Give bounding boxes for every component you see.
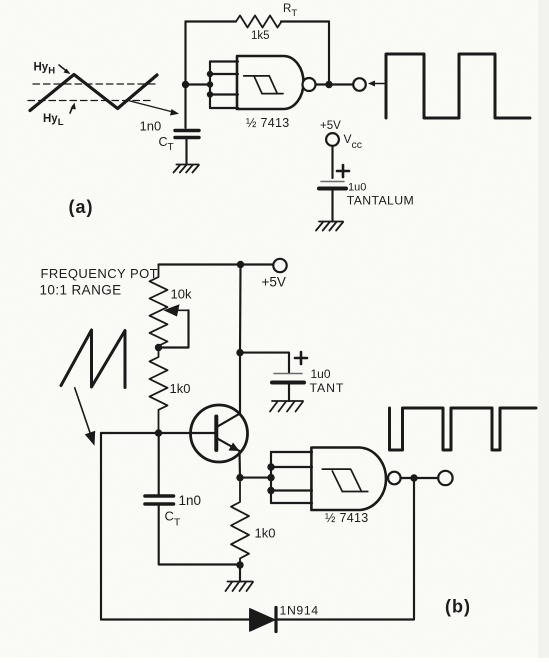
wire tant (b) to ground [288,383,290,402]
arrow HyH to peak [59,65,71,74]
square waveform (a) [386,54,530,118]
node input bus (b) dot 1 [267,463,274,470]
output bubble (a) [303,78,316,91]
svg-text:1u0: 1u0 [348,182,366,194]
arrow HyL to lower threshold [70,103,76,114]
capacitor tantalum (b) bottom plate [272,381,304,385]
ground tantalum (a) [316,222,343,231]
upper hysteresis dashed line [33,83,158,85]
svg-text:1n0: 1n0 [140,119,162,134]
capacitor CT (b) top plate [145,494,174,498]
capacitor tantalum (a) top plate [321,181,344,183]
node input bus dot 1 [207,71,213,77]
node junction left (a) [182,81,189,88]
resistor 1k0 (right) [231,478,249,565]
wire CT (b) bottom [159,504,240,565]
ground CT (a) [174,165,199,173]
wire collector up [239,353,241,414]
wire feedback top right segment [281,20,329,22]
resistor 1k0 (left) [150,348,168,434]
node pot bottom [155,344,162,351]
node input bus dot 3 [207,91,213,97]
node resistor bottom [236,561,243,568]
svg-text:TANTALUM: TANTALUM [347,193,414,207]
Vcc terminal circle [326,133,339,146]
wire emitter down [238,451,241,478]
wire emitter to input bus (b) [240,477,271,479]
wire resistor bottom to ground [239,565,241,582]
wire CT (b) from base node [158,433,160,496]
nand gate U2 (b) body [311,448,386,511]
transistor collector line [217,413,240,426]
capacitor CT (a) bottom plate [175,136,199,139]
output bubble (b) [388,472,401,485]
node input bus (b) dot 3 [267,487,274,494]
wire node to input bus [186,83,211,85]
potentiometer 10k resistor body [150,265,168,348]
arrow sawtooth to feedback corner [75,388,96,446]
svg-text:1u0: 1u0 [311,367,331,381]
capacitor CT (b) bottom plate [145,502,174,506]
node base junction [155,429,162,436]
transistor emitter line with arrow [217,438,240,451]
input stub 3 (b) [271,489,312,491]
output terminal circle (a) [353,78,366,91]
output terminal circle (b) [438,471,452,485]
svg-text:1N914: 1N914 [280,604,319,618]
input stub 1 (a) [210,60,238,62]
wire +5V rail down [239,265,242,353]
plus sign tantalum (b) [295,352,307,364]
svg-text:(b): (b) [445,597,471,617]
svg-text:1k0: 1k0 [255,526,276,541]
capacitor CT (a) top plate [175,129,199,132]
input bus vertical (b) [270,452,272,503]
node top rail (b) [237,261,244,268]
capacitor tantalum (a) bottom plate [319,187,346,191]
wire gate output (b) [401,477,438,479]
svg-text:(a): (a) [69,197,94,217]
wire CT to ground [185,138,187,165]
wire to tant cap (b) [240,353,289,373]
input stub 4 (b) [271,502,312,504]
hysteresis symbol (b) [322,469,368,491]
diode 1N914 [250,608,276,632]
svg-text:10k: 10k [171,287,192,302]
wire wiper loop [159,310,189,347]
svg-text:+5V: +5V [320,120,341,132]
node output (b) [410,474,417,481]
wire feedback top left segment [186,20,237,22]
svg-text:1k5: 1k5 [251,30,270,42]
arrow from square wave to output (a) [368,81,384,87]
svg-text:1k0: 1k0 [170,381,191,396]
wire gate output (a) [316,83,353,85]
transistor base bar [214,417,218,451]
triangle waveform (a) [30,75,157,111]
node emitter [236,474,243,481]
wire base rail [101,432,216,434]
input stub 3 (a) [210,93,238,95]
svg-text:TANT: TANT [310,381,345,395]
nand gate U1 (a) body [237,56,304,109]
ground tantalum (b) [270,401,303,412]
svg-text:FREQUENCY POT: FREQUENCY POT [41,266,159,281]
node output (a) [325,81,332,88]
wire output feedback down (b) [277,478,414,620]
resistor RT [236,16,282,28]
transistor Q1 circle [191,405,248,462]
svg-text:10:1 RANGE: 10:1 RANGE [40,283,122,298]
+5V terminal circle (b) [273,259,286,272]
wire tantalum to ground (a) [331,189,333,222]
hysteresis symbol (a) [244,76,283,94]
wire Vcc to cap [331,146,333,178]
ground 1k0 (b) [226,582,254,592]
wire feedback left vertical [184,22,186,129]
input stub 2 (b) [271,466,312,468]
input stub 2 (a) [210,73,238,75]
wire bottom rail left segment [101,618,251,620]
plus sign tantalum (a) [337,165,349,177]
svg-text:+5V: +5V [262,275,286,290]
arrow from triangle wave to CT node [128,101,179,116]
square waveform (b) [390,408,537,450]
wire feedback left vertical (b) [100,433,102,620]
sawtooth waveform (b) [61,330,125,388]
wire top rail (b) [159,263,273,265]
svg-text:½ 7413: ½ 7413 [246,116,290,130]
node collector rail [236,349,243,356]
capacitor tantalum (b) top plate [274,373,302,375]
svg-text:½ 7413: ½ 7413 [325,511,369,525]
input stub 4 (a) [210,107,238,109]
svg-text:1n0: 1n0 [179,493,202,508]
node input bus (b) dot 2 [267,474,274,481]
input bus vertical (a) [209,62,211,109]
wire feedback right vertical [328,22,330,85]
pot wiper arrow [164,304,189,316]
node input bus dot 2 [207,81,213,87]
lower hysteresis dashed line [28,100,154,102]
input stub 1 (b) [271,451,312,453]
